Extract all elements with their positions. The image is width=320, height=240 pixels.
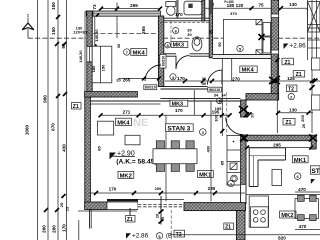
wardrobe living a xyxy=(98,121,114,135)
top wall corner pier xyxy=(86,11,93,16)
bottom wall west segment xyxy=(85,202,107,210)
80/210 box hall east xyxy=(208,87,222,92)
left exterior wall lower xyxy=(85,97,91,202)
right neighbor box mid xyxy=(312,58,320,70)
svg-text:130: 130 xyxy=(289,2,297,7)
corridor line south a xyxy=(91,100,241,102)
corridor line south b xyxy=(91,103,161,105)
nightstand b xyxy=(263,37,271,53)
svg-text:25: 25 xyxy=(59,202,64,207)
svg-text:130: 130 xyxy=(289,108,297,113)
svg-text:1060: 1060 xyxy=(25,124,30,135)
svg-text:205: 205 xyxy=(300,114,305,121)
kitchen north wall xyxy=(244,135,312,141)
bath hidden dashed vline xyxy=(170,21,172,45)
MK2 box kitchen xyxy=(280,211,296,219)
svg-text:900: 900 xyxy=(43,95,48,103)
dim vline x222 xyxy=(221,58,223,136)
terrace door dashed opening xyxy=(138,199,184,209)
MK1 box kitchen xyxy=(292,156,308,164)
MK3 box lower xyxy=(170,100,188,107)
circled 5 bedroom xyxy=(237,45,243,51)
pillow b xyxy=(256,50,262,55)
svg-text:120: 120 xyxy=(236,3,244,8)
right neighbor vline c xyxy=(316,0,318,60)
svg-text:180: 180 xyxy=(227,3,235,8)
bottom wall mid segment xyxy=(137,201,139,203)
room A closet side panel xyxy=(91,16,93,46)
left exterior wall outer face line xyxy=(84,11,86,97)
svg-text:+2.86: +2.86 xyxy=(132,233,149,240)
dim grid vline A xyxy=(37,0,39,240)
ST box edge xyxy=(310,166,320,175)
T2 box xyxy=(286,85,297,93)
svg-text:30: 30 xyxy=(202,81,207,86)
svg-text:271: 271 xyxy=(123,110,131,115)
terrace dashed vline xyxy=(170,210,172,240)
svg-text:Z1: Z1 xyxy=(285,120,291,126)
svg-text:NE: NE xyxy=(133,117,148,129)
junction X kitchen nw xyxy=(240,135,248,142)
top dim line left xyxy=(101,8,161,10)
Z1 box rt a xyxy=(282,58,294,66)
level mark +2.86 top xyxy=(284,42,307,49)
svg-text:30: 30 xyxy=(187,32,192,37)
svg-text:+2.86: +2.86 xyxy=(290,42,307,49)
svg-text:MK3: MK3 xyxy=(172,101,183,107)
tick on x222 xyxy=(220,129,224,133)
T2 box terrace xyxy=(174,230,185,238)
level mark kitchen xyxy=(311,179,315,184)
svg-text:230: 230 xyxy=(208,186,216,191)
level mark +2.90 xyxy=(110,151,135,160)
svg-text:470: 470 xyxy=(299,224,307,229)
kitchen table xyxy=(295,199,318,219)
toilet WC xyxy=(166,2,176,16)
svg-text:295: 295 xyxy=(273,142,281,147)
svg-text:820: 820 xyxy=(278,235,286,240)
kitchen west wall lower xyxy=(241,135,246,185)
80/210 box horizontal hall xyxy=(144,85,157,90)
level mark +2.86 bottom xyxy=(126,233,149,240)
svg-text:MK1: MK1 xyxy=(294,158,307,164)
bedroom west wall xyxy=(209,0,212,58)
svg-text:STAN 3: STAN 3 xyxy=(167,125,190,132)
Z1 box left xyxy=(72,103,82,110)
ticks y81 xyxy=(272,79,277,84)
kitchen north wall corner down xyxy=(311,135,316,149)
top dim line bedroom xyxy=(205,7,320,9)
svg-text:670: 670 xyxy=(51,123,56,131)
Z1 box bottom right xyxy=(224,223,234,231)
dim hline 470 top xyxy=(295,191,320,193)
terrace edge line xyxy=(78,210,137,212)
nightstand a xyxy=(263,23,271,37)
junction X kitchen ne xyxy=(309,135,317,142)
Z1 box rt b xyxy=(293,71,305,78)
dim hline y193 xyxy=(91,192,246,194)
circled 6 bath xyxy=(173,28,179,34)
hall wall y86 xyxy=(160,86,207,89)
right neighbor mark xyxy=(310,85,315,90)
Z1 box bottom left + leader xyxy=(126,208,135,223)
bathroom inner wall horizontal xyxy=(164,18,210,21)
top window band xyxy=(93,11,161,16)
bottom wall east segment xyxy=(184,203,246,211)
svg-text:195: 195 xyxy=(212,110,220,115)
section line 1-1 dashed xyxy=(28,37,86,39)
circled 1 corridor xyxy=(217,98,223,104)
right neighbor shelves xyxy=(308,39,320,41)
circled 2 xyxy=(288,93,294,99)
svg-text:265: 265 xyxy=(141,26,146,34)
svg-text:85: 85 xyxy=(97,146,102,151)
door arc bathroom xyxy=(176,56,189,69)
bed xyxy=(223,20,262,56)
svg-text:85: 85 xyxy=(220,160,225,165)
hall dim ticks y81 xyxy=(183,79,214,83)
svg-text:140,30: 140,30 xyxy=(78,50,83,63)
dim hline y115 mid xyxy=(101,114,230,116)
circled 6 kitchen xyxy=(294,173,301,180)
hall-bath vline xyxy=(193,90,195,115)
grid ticks xyxy=(44,15,67,212)
dining chairs xyxy=(156,141,194,172)
svg-text:200: 200 xyxy=(42,225,47,233)
svg-text:270: 270 xyxy=(232,76,240,81)
svg-text:470: 470 xyxy=(298,187,306,192)
right wall window slits xyxy=(271,14,278,54)
svg-text:Z1: Z1 xyxy=(296,72,302,78)
svg-text:170: 170 xyxy=(175,12,183,17)
MK1 box living xyxy=(198,171,214,179)
dim hline y112.7 right xyxy=(277,112,313,114)
svg-text:150: 150 xyxy=(101,64,106,71)
circled 6 bottom xyxy=(156,233,162,239)
svg-text:170: 170 xyxy=(62,224,67,232)
dim line room A door xyxy=(118,77,160,79)
kitchenette counter column xyxy=(227,136,241,186)
svg-text:170: 170 xyxy=(109,187,117,192)
svg-text:MK2: MK2 xyxy=(281,213,293,219)
svg-text:Z1: Z1 xyxy=(127,217,133,223)
door arc room A xyxy=(145,65,161,81)
right neighbor wardrobe xyxy=(308,2,320,33)
right neighbor box lower xyxy=(312,95,320,110)
circled 3 xyxy=(200,129,207,136)
hall vline x232 xyxy=(231,58,233,81)
bottom window xyxy=(107,199,138,210)
door arc hall-living xyxy=(208,70,223,85)
svg-text:170: 170 xyxy=(177,76,185,81)
svg-text:180: 180 xyxy=(91,65,96,72)
kitchen north wall (hall south) xyxy=(246,94,279,100)
pillow a xyxy=(256,20,262,25)
dining table xyxy=(153,149,197,164)
svg-text:ST: ST xyxy=(311,168,319,175)
svg-text:200: 200 xyxy=(52,225,57,233)
right exterior wall xyxy=(271,0,278,100)
window in left wall xyxy=(87,47,92,63)
dim grid vline B xyxy=(47,0,49,240)
svg-text:MK4: MK4 xyxy=(117,120,130,126)
circled 1 terrace xyxy=(228,180,234,186)
kitchen chairs xyxy=(298,195,317,220)
wall junction X a xyxy=(269,76,280,84)
dim grid vline C xyxy=(57,0,59,240)
tick on section line at bed xyxy=(259,34,265,40)
svg-text:MK4: MK4 xyxy=(133,50,146,56)
corridor line y98 xyxy=(160,97,240,99)
bathroom west wall xyxy=(158,16,163,87)
svg-text:75: 75 xyxy=(258,3,264,8)
wardrobe living b xyxy=(125,135,140,145)
svg-text:265: 265 xyxy=(123,78,131,83)
ticks y115 xyxy=(99,112,252,117)
Z1 box rt c xyxy=(283,118,295,126)
right dim vline x277 xyxy=(276,55,278,133)
svg-text:80/210: 80/210 xyxy=(162,56,166,66)
svg-text:MK2: MK2 xyxy=(120,173,132,179)
left exterior wall mid xyxy=(87,62,92,97)
svg-text:30: 30 xyxy=(208,29,213,34)
door leaf + 80/210 vertical label xyxy=(160,54,166,68)
svg-text:430: 430 xyxy=(62,144,67,152)
svg-text:20: 20 xyxy=(301,123,306,128)
svg-text:150: 150 xyxy=(51,27,56,35)
toilet-shower divider xyxy=(177,0,178,18)
right neighbor vline a xyxy=(307,0,309,60)
svg-text:(A.K.= 58.45): (A.K.= 58.45) xyxy=(116,159,156,166)
living-kitchenette divider vline xyxy=(210,101,212,202)
bathroom south wall w door xyxy=(164,54,209,56)
dim hline 470 bottom xyxy=(295,229,320,231)
dashed corridor line xyxy=(226,92,228,136)
bottom wall corner down xyxy=(236,211,245,240)
shower stall xyxy=(184,1,202,15)
kitchen island rect xyxy=(272,170,282,186)
svg-text:Z1: Z1 xyxy=(225,225,231,231)
living vline x166 xyxy=(165,115,167,201)
svg-text:90: 90 xyxy=(217,42,222,47)
bath hidden dashed hline xyxy=(160,21,212,23)
dim hline kitchen xyxy=(246,147,311,149)
kitchen mid hline xyxy=(246,194,320,196)
svg-text:15: 15 xyxy=(65,206,70,211)
MK3 box upper xyxy=(165,42,188,49)
svg-text:73: 73 xyxy=(92,4,97,10)
stove xyxy=(251,207,269,227)
svg-text:Z1: Z1 xyxy=(284,60,290,66)
section arrow 1 xyxy=(22,13,34,39)
svg-text:30: 30 xyxy=(116,43,121,48)
kitchen corner sofa xyxy=(249,148,285,187)
dim helper vline x117 xyxy=(116,3,118,39)
junction X kitchen door xyxy=(239,106,248,113)
svg-text:140,30: 140,30 xyxy=(94,29,99,42)
svg-text:MK4: MK4 xyxy=(242,68,255,74)
MK4 box living xyxy=(116,118,132,126)
svg-text:80/210: 80/210 xyxy=(145,86,156,90)
left exterior wall upper xyxy=(87,11,92,47)
svg-text:MK1: MK1 xyxy=(199,173,212,179)
svg-text:T2: T2 xyxy=(288,87,294,93)
svg-text:100: 100 xyxy=(51,2,56,10)
svg-text:170: 170 xyxy=(175,108,183,113)
kitchen west wall upper xyxy=(241,100,246,117)
bedroom south wall xyxy=(213,55,272,59)
stove counter block xyxy=(249,196,268,227)
dim vline x161 bottom xyxy=(160,196,162,225)
dim hline y81 right xyxy=(165,80,320,82)
STAN 3 box xyxy=(166,124,194,133)
MK4 box top xyxy=(131,48,147,56)
room A closet rect xyxy=(92,46,112,83)
MK4 box right xyxy=(240,66,257,74)
MK2 box living xyxy=(118,171,134,179)
circled 4 xyxy=(170,74,176,80)
circled 7 xyxy=(124,49,130,55)
building edge below corner xyxy=(79,210,91,240)
washbasin xyxy=(192,37,202,51)
svg-text:370: 370 xyxy=(230,11,237,16)
svg-text:MK3: MK3 xyxy=(173,43,184,49)
svg-text:34: 34 xyxy=(214,92,219,97)
right neighbor vline b xyxy=(311,0,313,133)
dim grid vline D xyxy=(65,0,67,240)
shower-bedroom wall stub xyxy=(202,0,205,21)
interior wall band horizontal (room A south) xyxy=(85,92,138,97)
svg-text:200: 200 xyxy=(155,186,162,191)
svg-text:265: 265 xyxy=(130,3,138,8)
svg-text:20: 20 xyxy=(116,78,121,83)
svg-text:430: 430 xyxy=(206,145,211,152)
bottom dim hline y235 xyxy=(170,234,320,236)
svg-text:Z1: Z1 xyxy=(73,104,79,110)
door arc kitchen xyxy=(226,117,243,134)
